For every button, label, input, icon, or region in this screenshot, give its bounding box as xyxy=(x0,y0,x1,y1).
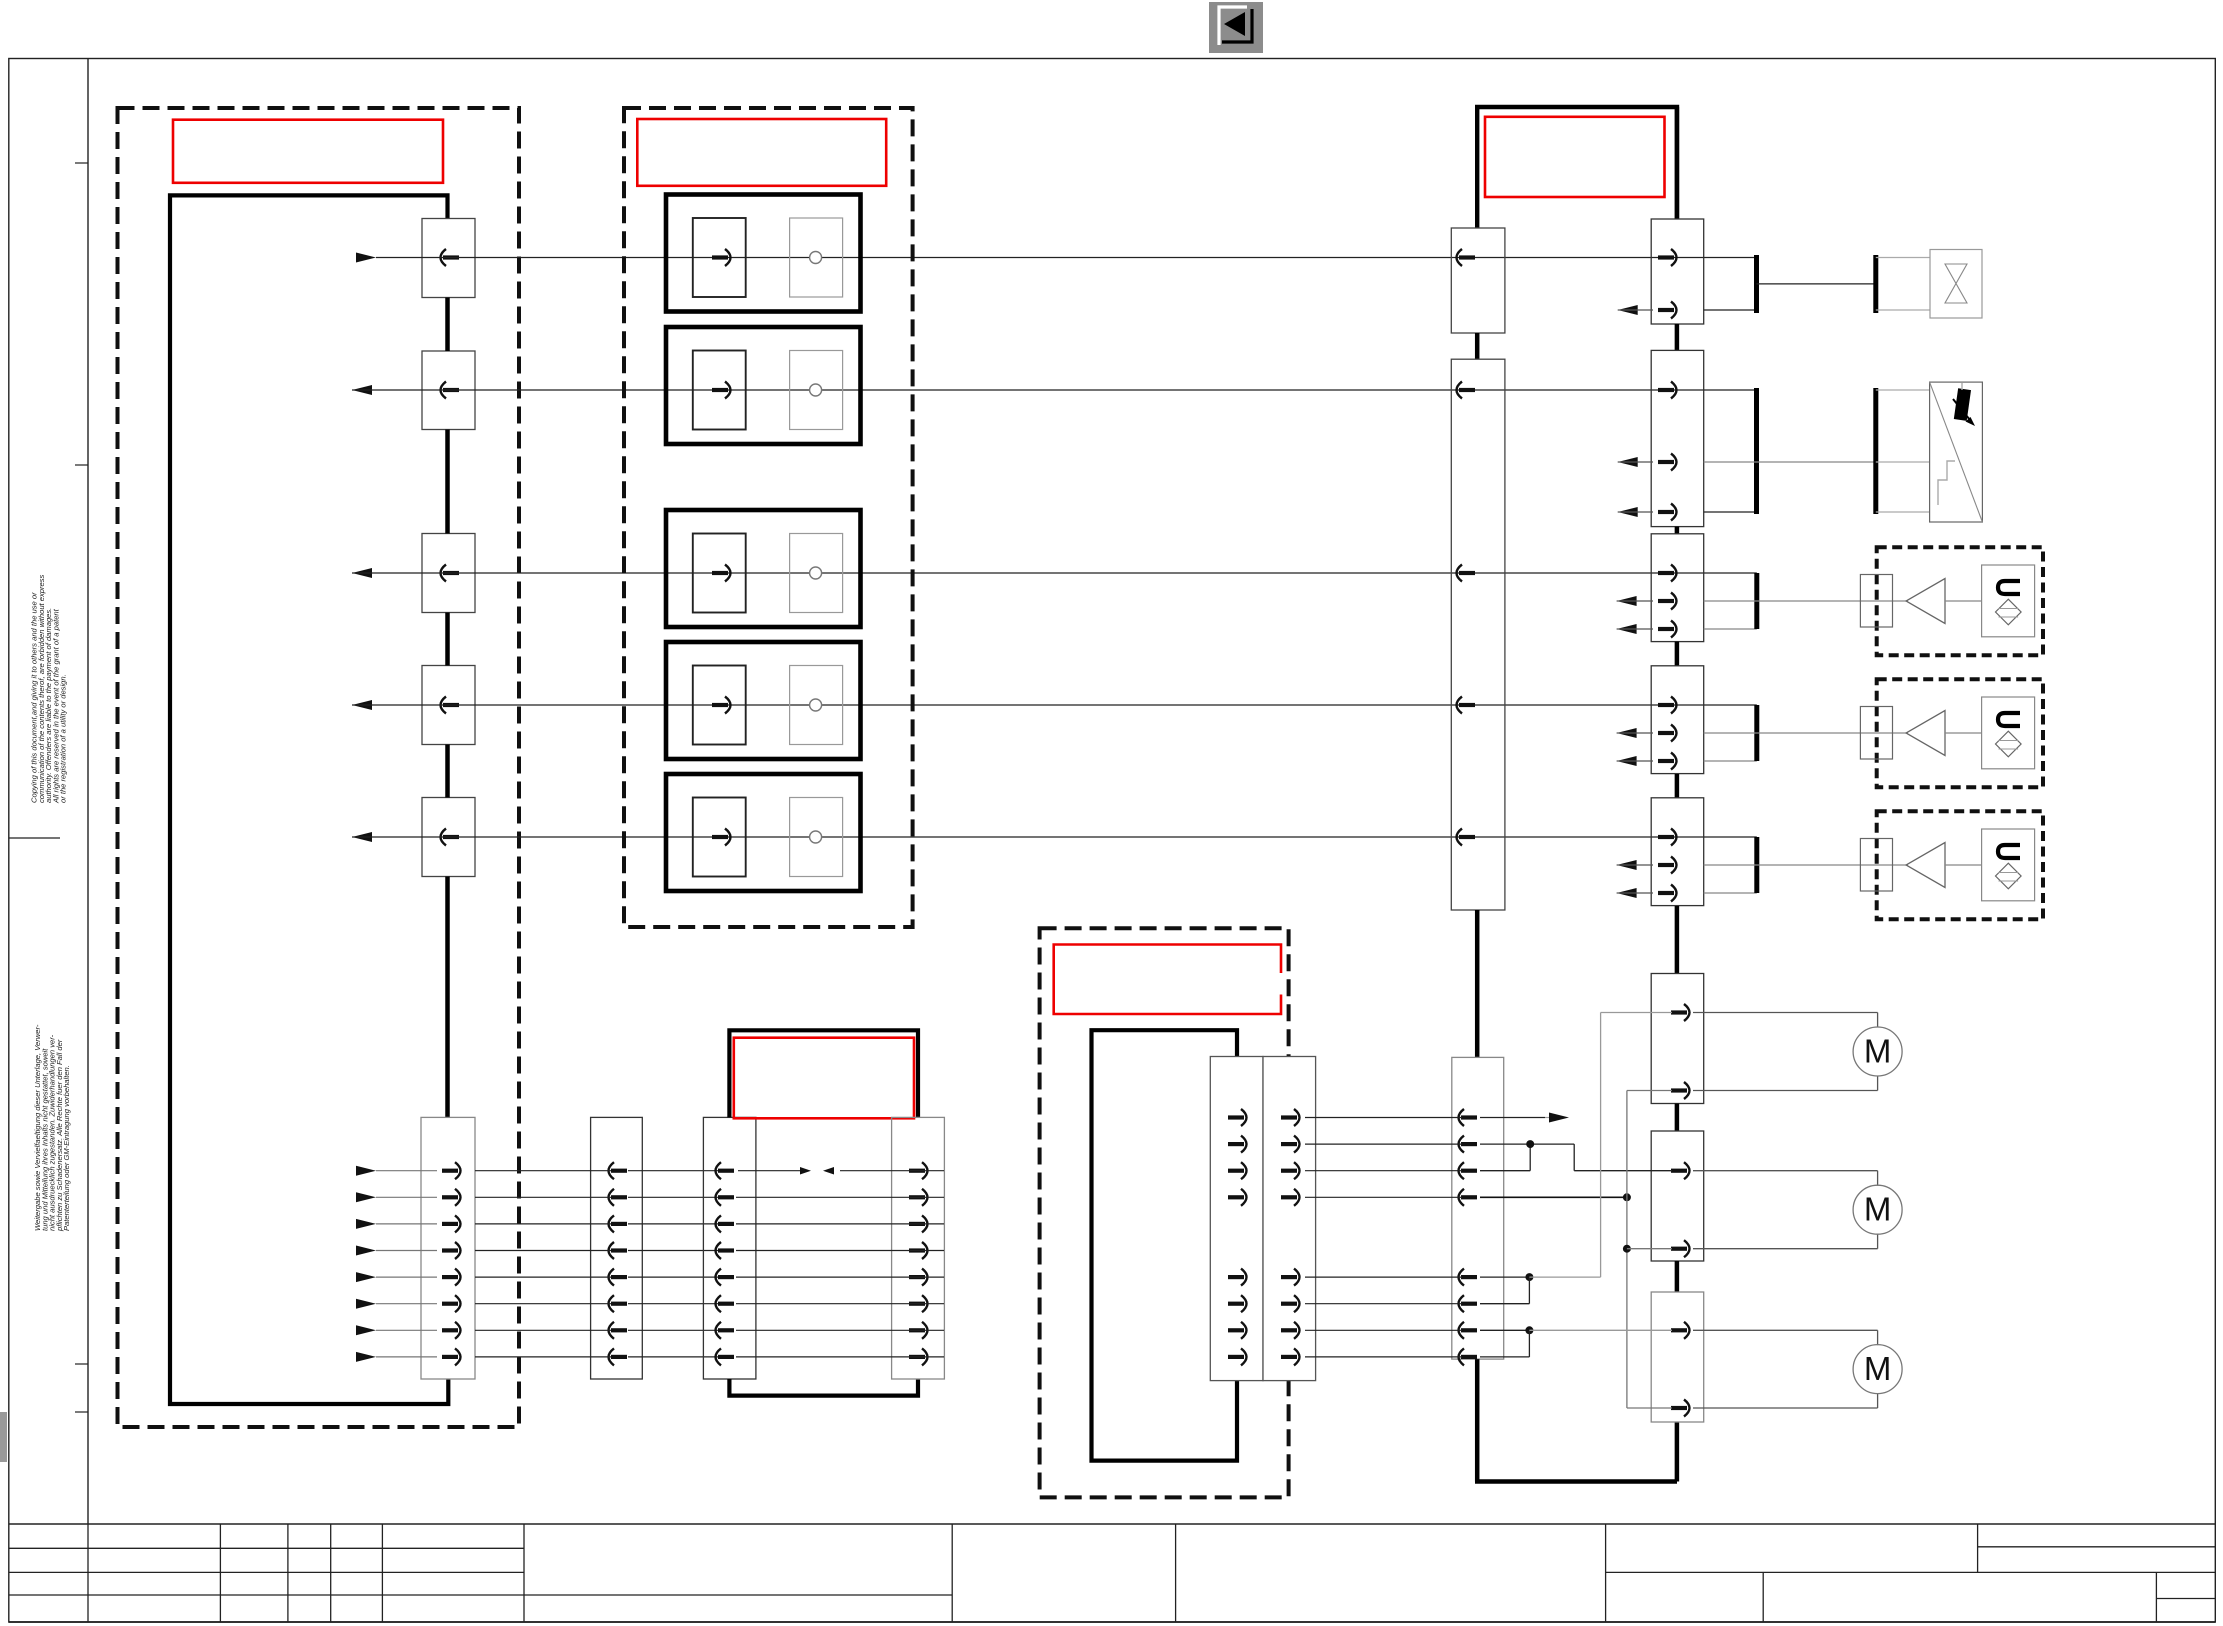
connector X4.5 xyxy=(1617,798,1704,906)
label box module B xyxy=(1054,945,1281,1015)
module B dashed boundary xyxy=(1040,928,1289,1497)
motor M1 xyxy=(1853,1027,1902,1076)
connector X5.2 xyxy=(1651,1131,1704,1261)
pin 2 of X1 xyxy=(441,382,460,399)
inline connector X6 xyxy=(591,1117,643,1379)
speaker 3 dashed boundary xyxy=(1877,811,2043,919)
link S2-S3 xyxy=(1675,527,1680,534)
speaker 1 cone xyxy=(1906,579,1982,624)
svg-text:M: M xyxy=(1864,1033,1892,1070)
wire net 1 xyxy=(356,253,1704,263)
control module A1 dashed boundary xyxy=(118,108,520,1427)
sensor boundary bar xyxy=(1873,388,1878,514)
junction bracket 1 xyxy=(1704,573,1757,629)
label box relay carrier xyxy=(637,119,886,186)
connector X3.1 xyxy=(1451,228,1505,333)
junction bracket S1 xyxy=(1704,255,1757,313)
copyright notice (german) xyxy=(33,1024,71,1232)
connector X1.1 on module A1 xyxy=(422,219,475,298)
connector X9 left half xyxy=(1210,1057,1263,1381)
speaker 1 dashed boundary xyxy=(1877,547,2043,655)
link S3-S4 xyxy=(1675,642,1680,666)
label box module A2 xyxy=(734,1038,914,1119)
module A2 outline xyxy=(729,1030,918,1395)
pin 1 of X1 xyxy=(441,249,460,266)
speaker feed wire 1 xyxy=(1704,600,1908,602)
pins of X3.2 xyxy=(1457,382,1476,846)
connector X5.3 xyxy=(1651,1292,1704,1422)
module B outline xyxy=(1092,1030,1238,1460)
pins of X7 xyxy=(716,1162,735,1365)
junction bracket S2 xyxy=(1704,388,1757,514)
connector X2 on module A1 xyxy=(421,1117,475,1379)
pins of X3.3 xyxy=(1459,1109,1478,1365)
connector X1.5 on module A1 xyxy=(422,798,475,877)
valve stub wires xyxy=(1876,258,1930,311)
title block xyxy=(9,1524,2216,1622)
relay K3 xyxy=(666,510,861,627)
wire net 2 xyxy=(352,385,1704,395)
speaker 2 connector xyxy=(1860,707,1892,760)
sensor feed wire xyxy=(1704,461,1876,463)
svg-text:M: M xyxy=(1864,1191,1892,1228)
pin 5 of X1 xyxy=(441,829,460,846)
svg-text:M: M xyxy=(1864,1350,1892,1387)
pin 3 of X1 xyxy=(441,565,460,582)
connector X8 on module A2 xyxy=(892,1117,945,1379)
relay carrier dashed boundary xyxy=(624,108,913,927)
speaker 3 cone xyxy=(1906,843,1982,888)
connector X4.2 xyxy=(1651,350,1704,526)
speaker 2 cone xyxy=(1906,711,1982,756)
mating arrows net row1 xyxy=(738,1167,944,1175)
speaker 2 symbol box xyxy=(1982,697,2035,769)
label box door module xyxy=(1485,117,1665,197)
link X5.1-X5.2 xyxy=(1675,1104,1680,1132)
link X3.2-X3.3 xyxy=(1475,910,1480,1057)
relay K5 xyxy=(666,774,861,891)
pins of X2 xyxy=(442,1162,461,1365)
net k6/k7 to M1 xyxy=(1480,1013,1672,1304)
pins of X6 xyxy=(609,1162,628,1365)
link top-S1 xyxy=(1675,107,1680,219)
harness wires X2-X6-X7 xyxy=(475,1171,721,1357)
wire net 3 xyxy=(352,568,1704,578)
sensor B1 xyxy=(1930,382,1983,522)
pins of X4.2 xyxy=(1658,382,1677,521)
connector X4.3 xyxy=(1617,534,1704,642)
label box A1 xyxy=(173,120,443,183)
connector X5.1 xyxy=(1651,974,1704,1104)
print mark xyxy=(0,1412,7,1462)
pins of X4.1 xyxy=(1658,249,1677,319)
frame tick marks xyxy=(9,163,88,1412)
frame inner margin line xyxy=(87,59,89,1525)
motor M3 xyxy=(1853,1345,1902,1394)
sensor stub wires xyxy=(1876,390,1930,512)
door module outline top xyxy=(1477,107,1677,228)
svg-text:Patenterteilung oder GM-Eintra: Patenterteilung oder GM-Eintragung vorbe… xyxy=(62,1065,71,1231)
connector X1.4 on module A1 xyxy=(422,666,475,745)
link S4-S5 xyxy=(1675,774,1680,798)
back navigation button xyxy=(1209,2,1263,53)
wire net 4 xyxy=(352,700,1704,710)
speaker 3 connector xyxy=(1860,839,1892,892)
connector X3.2 xyxy=(1451,359,1505,910)
link X5.2-X5.3 xyxy=(1675,1261,1680,1292)
valve boundary bar xyxy=(1873,255,1878,313)
connector X4.4 xyxy=(1617,666,1704,774)
link X3.1-X3.2 xyxy=(1475,333,1480,359)
net k3 motor supply bus xyxy=(1480,1091,1672,1409)
relay K2 xyxy=(666,327,861,444)
wire links between X1 connectors xyxy=(445,298,450,1118)
link S1-S2 xyxy=(1675,324,1680,350)
pins of X8 xyxy=(909,1162,928,1365)
speaker 2 dashed boundary xyxy=(1877,679,2043,787)
relay K4 xyxy=(666,642,861,759)
off-page arrows X4.2 xyxy=(1618,457,1653,517)
wires X9-X3.3 xyxy=(1305,1118,1462,1357)
motor M2 xyxy=(1853,1185,1902,1234)
wires to motor M1 xyxy=(1693,1013,1878,1091)
svg-text:or the registration of a utili: or the registration of a utility or desi… xyxy=(59,674,68,803)
wires to motor M2 xyxy=(1693,1171,1878,1249)
link S5-M1 xyxy=(1675,906,1680,974)
connector X1.2 on module A1 xyxy=(422,351,475,430)
valve feed wire xyxy=(1757,283,1876,285)
speaker feed wire 2 xyxy=(1704,732,1908,734)
pins of X9 xyxy=(1228,1109,1300,1365)
copyright notice (english) xyxy=(30,574,68,804)
wires through module A2 xyxy=(736,1197,944,1357)
valve V1 xyxy=(1930,250,1982,319)
speaker 1 symbol box xyxy=(1982,565,2035,637)
net k0 off-page xyxy=(1480,1113,1569,1123)
wire net 5 xyxy=(352,832,1704,842)
off-page arrow X4.1 pin2 xyxy=(1618,305,1653,315)
relay K1 xyxy=(666,195,861,312)
ground return thick wire xyxy=(1475,1359,1677,1481)
connector X1.3 on module A1 xyxy=(422,534,475,613)
net k1/k2 to M2 xyxy=(1480,1140,1672,1171)
connector X3.3 xyxy=(1452,1057,1504,1359)
junction bracket 2 xyxy=(1704,705,1757,761)
wires to motor M3 xyxy=(1693,1330,1878,1408)
connector X9 right half xyxy=(1263,1057,1316,1381)
speaker 3 symbol box xyxy=(1982,829,2035,901)
speaker feed wire 3 xyxy=(1704,864,1908,866)
connector X4.1 xyxy=(1651,219,1704,324)
connector X7 on module A2 xyxy=(703,1117,756,1379)
control module A1 outline xyxy=(170,195,448,1404)
net k8/k9 to M3 xyxy=(1480,1326,1672,1357)
junction bracket 3 xyxy=(1704,837,1757,893)
off-page input arrows to X2 xyxy=(356,1166,437,1362)
pin 4 of X1 xyxy=(441,697,460,714)
speaker 1 connector xyxy=(1860,575,1892,628)
pin of X3.1 xyxy=(1457,249,1476,266)
